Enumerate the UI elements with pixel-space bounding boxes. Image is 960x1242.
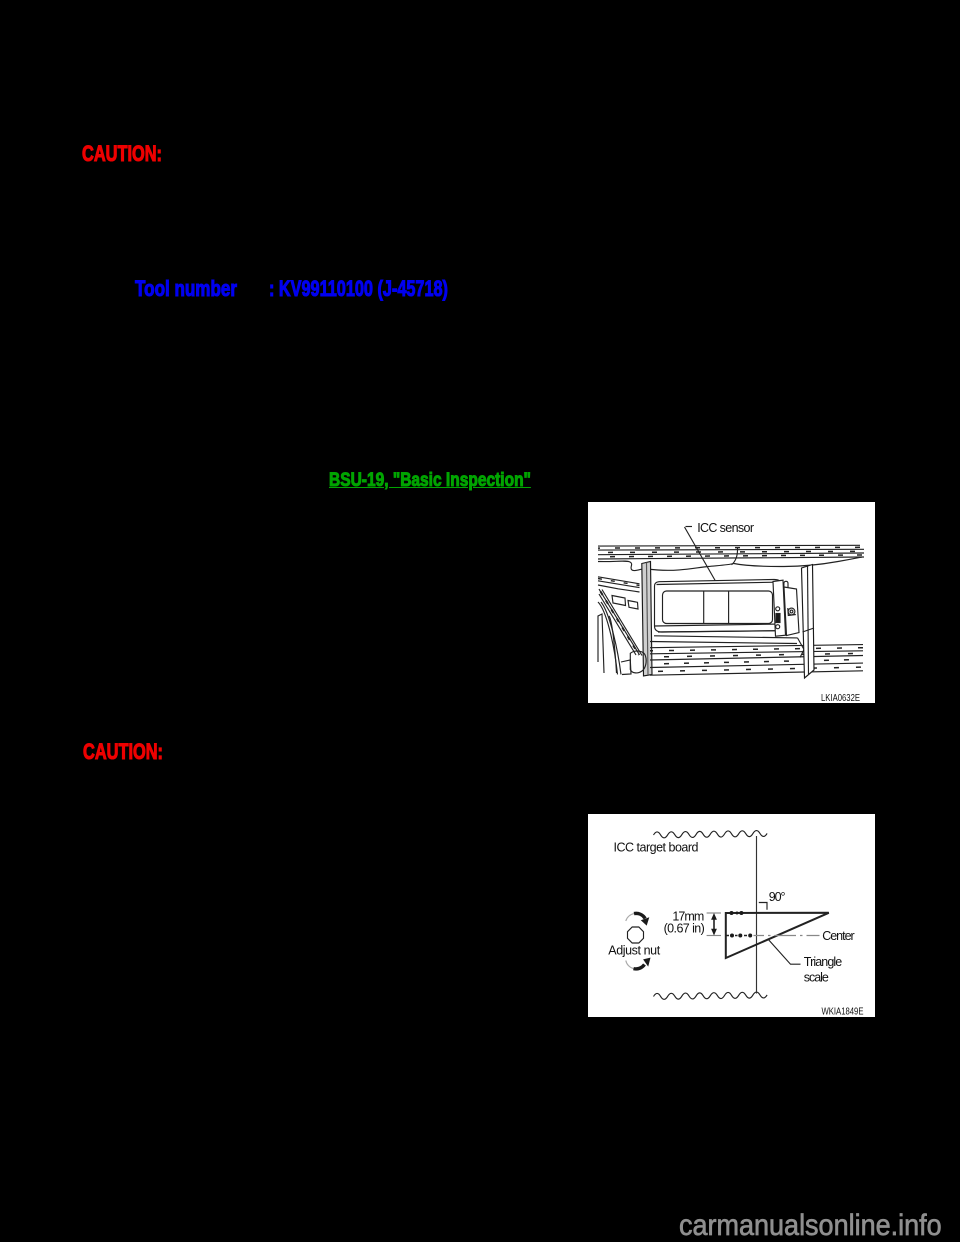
- svg-text:WKIA1849E: WKIA1849E: [822, 1007, 864, 1018]
- svg-text:ICC sensor: ICC sensor: [697, 521, 754, 535]
- svg-text:Adjust nut: Adjust nut: [608, 944, 660, 958]
- svg-text:LKIA0632E: LKIA0632E: [821, 693, 860, 703]
- svg-text:ICC target board: ICC target board: [614, 840, 699, 854]
- svg-text:90°: 90°: [769, 890, 786, 904]
- svg-text:Triangle: Triangle: [804, 955, 842, 969]
- svg-text:scale: scale: [804, 971, 829, 985]
- svg-text:Center: Center: [822, 929, 855, 943]
- svg-text:(0.67 in): (0.67 in): [664, 922, 705, 936]
